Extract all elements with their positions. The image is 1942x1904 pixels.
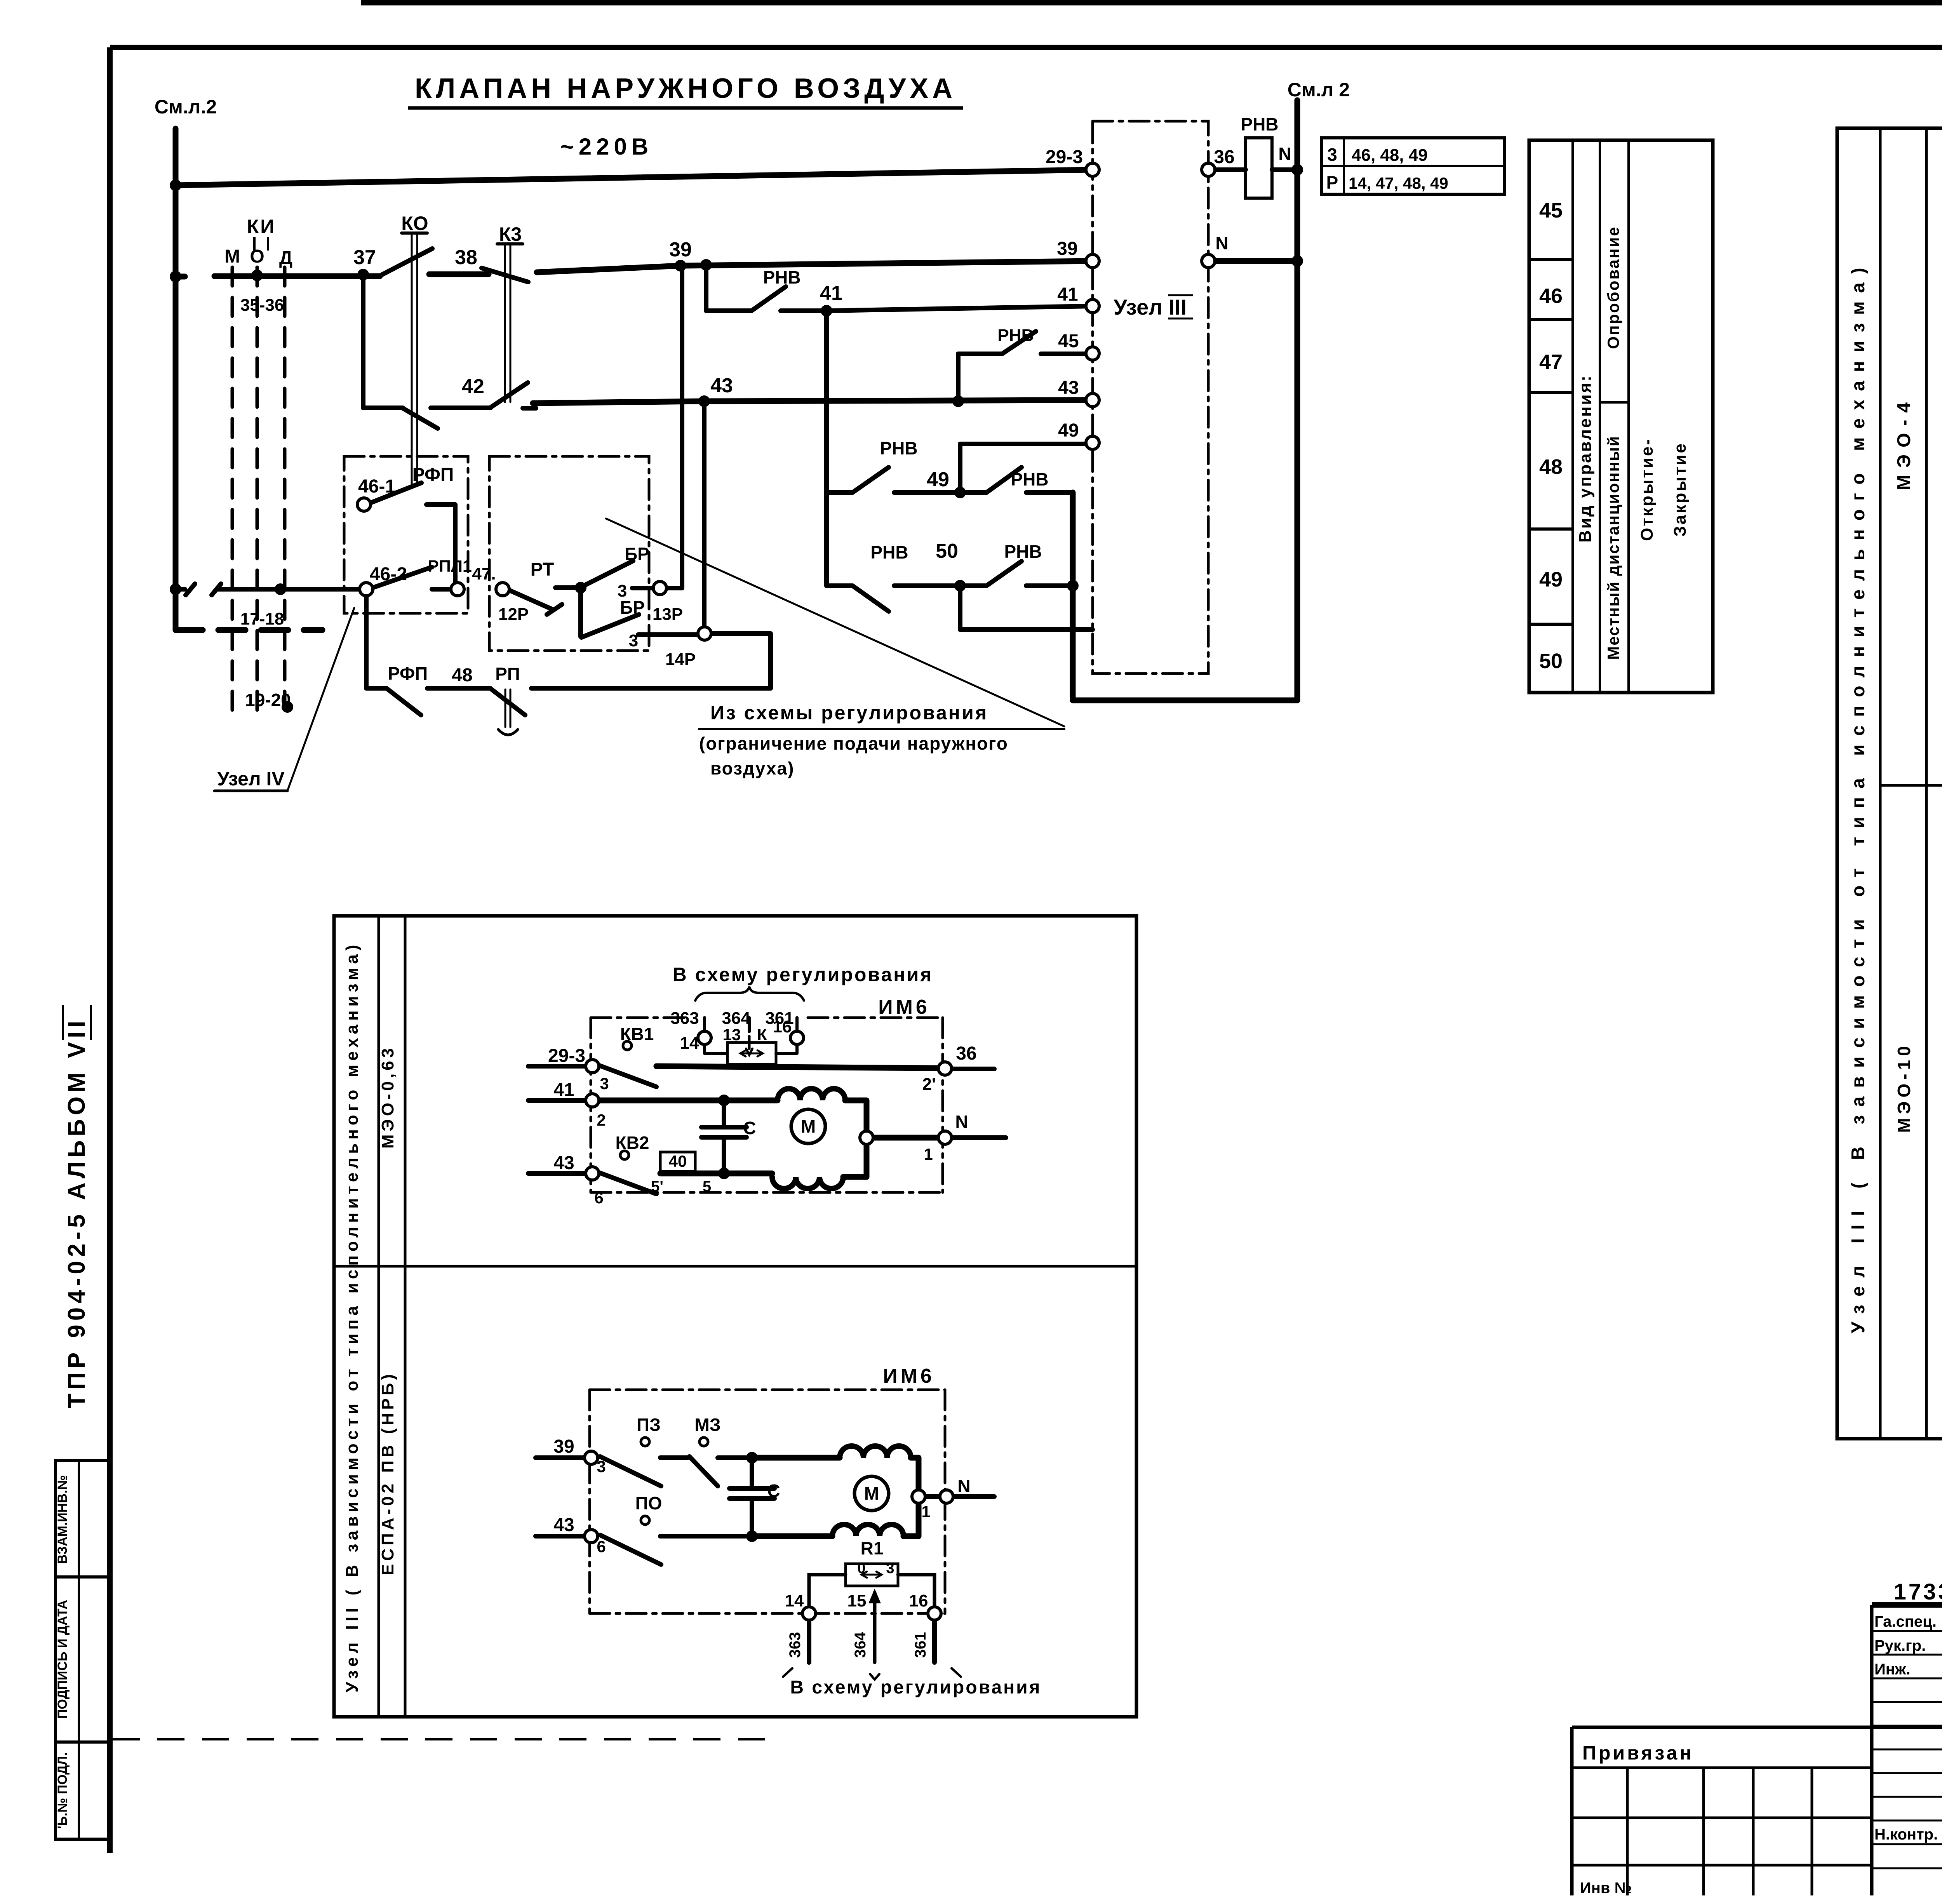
svg-text:43: 43 bbox=[553, 1515, 574, 1535]
svg-text:363: 363 bbox=[787, 1632, 804, 1658]
svg-text:М: М bbox=[224, 246, 240, 267]
svg-text:РНВ: РНВ bbox=[1241, 114, 1278, 134]
svg-text:Инв №: Инв № bbox=[1580, 1880, 1632, 1897]
svg-text:41: 41 bbox=[1057, 284, 1078, 305]
svg-text:43: 43 bbox=[710, 374, 733, 397]
svg-text:36: 36 bbox=[956, 1043, 976, 1064]
svg-text:49: 49 bbox=[1539, 568, 1563, 591]
svg-text:ПОДПИСЬ И ДАТА: ПОДПИСЬ И ДАТА bbox=[55, 1600, 70, 1719]
svg-text:О: О bbox=[250, 246, 264, 267]
svg-text:РНВ: РНВ bbox=[1004, 541, 1042, 562]
svg-text:В схему регулирования: В схему регулирования bbox=[790, 1677, 1041, 1698]
svg-text:1: 1 bbox=[921, 1502, 930, 1521]
svg-text:364: 364 bbox=[852, 1632, 869, 1658]
svg-text:РНВ: РНВ bbox=[880, 438, 917, 458]
svg-text:39: 39 bbox=[669, 238, 692, 261]
svg-text:Узел IV: Узел IV bbox=[217, 768, 285, 790]
svg-text:ИМ6: ИМ6 bbox=[883, 1365, 935, 1387]
svg-text:361: 361 bbox=[912, 1632, 929, 1658]
svg-text:12Р: 12Р bbox=[498, 605, 529, 624]
svg-text:48: 48 bbox=[1539, 455, 1563, 479]
svg-text:16: 16 bbox=[909, 1591, 928, 1610]
svg-text:Закрытие: Закрытие bbox=[1671, 442, 1690, 537]
svg-text:МЭО-0,63: МЭО-0,63 bbox=[378, 1045, 397, 1149]
svg-text:ЕСПА-02 ПВ (НРБ): ЕСПА-02 ПВ (НРБ) bbox=[378, 1371, 397, 1575]
svg-text:ПЗ: ПЗ bbox=[637, 1415, 661, 1435]
svg-text:БР: БР bbox=[625, 544, 649, 564]
svg-text:К3: К3 bbox=[499, 223, 522, 245]
svg-text:N: N bbox=[1215, 233, 1228, 253]
svg-text:43: 43 bbox=[1058, 378, 1079, 398]
svg-text:43: 43 bbox=[553, 1153, 574, 1173]
svg-text:КИ: КИ bbox=[247, 216, 276, 237]
svg-text:6: 6 bbox=[597, 1537, 606, 1556]
svg-text:М: М bbox=[864, 1483, 879, 1504]
svg-text:47: 47 bbox=[1539, 350, 1563, 374]
svg-text:Вид управления:: Вид управления: bbox=[1576, 374, 1595, 543]
svg-text:Н.контр.: Н.контр. bbox=[1874, 1826, 1938, 1843]
svg-text:МЭО-4: МЭО-4 bbox=[1894, 395, 1914, 490]
svg-text:3: 3 bbox=[600, 1074, 609, 1093]
svg-text:РПЛ1: РПЛ1 bbox=[428, 557, 472, 576]
svg-text:М: М bbox=[801, 1116, 816, 1136]
svg-text:КВ1: КВ1 bbox=[620, 1024, 654, 1044]
svg-text:46: 46 bbox=[1539, 284, 1563, 308]
svg-text:29-3: 29-3 bbox=[548, 1046, 585, 1066]
svg-text:См.л.2: См.л.2 bbox=[155, 96, 217, 118]
svg-text:37: 37 bbox=[353, 246, 376, 269]
svg-text:364: 364 bbox=[722, 1009, 750, 1028]
svg-text:13: 13 bbox=[723, 1025, 741, 1044]
svg-text:46, 48, 49: 46, 48, 49 bbox=[1352, 146, 1428, 165]
svg-text:РП: РП bbox=[495, 664, 520, 684]
svg-text:17-18: 17-18 bbox=[240, 609, 284, 628]
svg-text:N: N bbox=[1278, 144, 1291, 164]
svg-text:~220В: ~220В bbox=[560, 134, 653, 160]
svg-text:47.: 47. bbox=[472, 564, 496, 583]
svg-text:2: 2 bbox=[597, 1111, 606, 1129]
svg-text:Рук.гр.: Рук.гр. bbox=[1874, 1637, 1926, 1654]
svg-text:С: С bbox=[767, 1481, 780, 1501]
svg-text:46-2: 46-2 bbox=[370, 564, 407, 585]
svg-text:5: 5 bbox=[703, 1178, 711, 1195]
svg-text:14: 14 bbox=[785, 1591, 804, 1610]
svg-text:6: 6 bbox=[594, 1189, 603, 1207]
svg-text:ТПР 904-02-5 АЛЬБОМ VII: ТПР 904-02-5 АЛЬБОМ VII bbox=[63, 1017, 90, 1408]
svg-text:29-3: 29-3 bbox=[1046, 147, 1083, 167]
svg-text:Р: Р bbox=[1326, 172, 1338, 193]
svg-text:46-1: 46-1 bbox=[358, 476, 395, 497]
svg-text:Инж.: Инж. bbox=[1874, 1661, 1910, 1678]
svg-text:БР: БР bbox=[620, 597, 645, 618]
svg-text:19-20: 19-20 bbox=[245, 690, 291, 710]
svg-text:Из схемы регулирования: Из схемы регулирования bbox=[710, 702, 988, 724]
svg-text:ИМ6: ИМ6 bbox=[878, 996, 930, 1018]
svg-text:РФП: РФП bbox=[388, 663, 428, 684]
svg-text:Местный дистанционный: Местный дистанционный bbox=[1604, 435, 1622, 660]
svg-text:41: 41 bbox=[820, 282, 842, 305]
svg-text:42: 42 bbox=[462, 375, 484, 398]
svg-text:39: 39 bbox=[1057, 238, 1077, 259]
svg-text:49: 49 bbox=[1058, 420, 1079, 441]
svg-text:38: 38 bbox=[455, 246, 477, 269]
svg-text:14Р: 14Р bbox=[665, 650, 696, 669]
svg-text:Опробование: Опробование bbox=[1604, 226, 1622, 349]
svg-text:ПО: ПО bbox=[635, 1493, 662, 1513]
svg-text:49: 49 bbox=[927, 468, 949, 491]
svg-text:41: 41 bbox=[553, 1080, 574, 1100]
svg-text:КО: КО bbox=[401, 212, 428, 234]
svg-text:РТ: РТ bbox=[531, 559, 554, 580]
svg-text:48: 48 bbox=[452, 665, 472, 686]
svg-text:Д: Д bbox=[279, 248, 292, 268]
svg-text:РНВ: РНВ bbox=[870, 542, 908, 562]
svg-text:1: 1 bbox=[924, 1145, 933, 1163]
svg-text:0: 0 bbox=[857, 1560, 865, 1577]
svg-text:МЭО-10: МЭО-10 bbox=[1894, 1042, 1914, 1133]
svg-text:Открытие-: Открытие- bbox=[1637, 438, 1657, 541]
svg-text:РНВ: РНВ bbox=[763, 267, 800, 287]
svg-text:3: 3 bbox=[597, 1457, 606, 1476]
svg-text:3: 3 bbox=[1327, 144, 1337, 165]
svg-text:РФП: РФП bbox=[412, 465, 454, 485]
svg-text:КЛАПАН НАРУЖНОГО ВОЗДУХА: КЛАПАН НАРУЖНОГО ВОЗДУХА bbox=[415, 73, 956, 104]
svg-text:РНВ: РНВ bbox=[998, 326, 1034, 345]
svg-text:'Ь.№ ПОДЛ.: 'Ь.№ ПОДЛ. bbox=[55, 1752, 70, 1829]
svg-text:17333-08: 17333-08 bbox=[1893, 1579, 1942, 1605]
svg-text:35-36: 35-36 bbox=[240, 296, 284, 315]
svg-text:N: N bbox=[957, 1476, 970, 1496]
svg-text:40: 40 bbox=[669, 1152, 687, 1170]
svg-text:50: 50 bbox=[936, 540, 958, 562]
svg-text:50: 50 bbox=[1539, 649, 1563, 673]
svg-text:13Р: 13Р bbox=[653, 605, 683, 624]
svg-text:3: 3 bbox=[629, 631, 638, 650]
svg-text:R1: R1 bbox=[861, 1538, 884, 1558]
svg-text:воздуха): воздуха) bbox=[710, 758, 794, 778]
svg-text:39: 39 bbox=[553, 1436, 574, 1457]
svg-text:45: 45 bbox=[1539, 199, 1563, 222]
svg-text:Узел III: Узел III bbox=[1114, 295, 1187, 319]
svg-text:Привязан: Привязан bbox=[1582, 1742, 1694, 1764]
svg-text:МЗ: МЗ bbox=[694, 1415, 720, 1435]
svg-text:Га.спец.: Га.спец. bbox=[1874, 1613, 1937, 1630]
svg-text:36: 36 bbox=[1214, 147, 1234, 167]
svg-text:С: С bbox=[743, 1118, 756, 1138]
svg-text:К: К bbox=[757, 1025, 767, 1044]
svg-text:N: N bbox=[955, 1112, 968, 1132]
svg-text:В схему регулирования: В схему регулирования bbox=[673, 964, 933, 985]
svg-text:15: 15 bbox=[847, 1591, 867, 1610]
svg-text:ВЗАМ.ИНВ.№: ВЗАМ.ИНВ.№ bbox=[55, 1475, 70, 1564]
svg-text:5': 5' bbox=[651, 1178, 663, 1195]
svg-text:Узел III ( В зависимости от ти: Узел III ( В зависимости от типа исполни… bbox=[343, 941, 362, 1693]
svg-text:Узел III ( В зависимости от ти: Узел III ( В зависимости от типа исполни… bbox=[1848, 259, 1869, 1333]
svg-text:2': 2' bbox=[922, 1075, 936, 1094]
svg-text:16: 16 bbox=[773, 1017, 792, 1036]
svg-text:14: 14 bbox=[680, 1034, 699, 1053]
svg-text:(ограничение подачи наружного: (ограничение подачи наружного bbox=[699, 733, 1008, 754]
svg-text:363: 363 bbox=[670, 1009, 699, 1028]
svg-text:14, 47, 48, 49: 14, 47, 48, 49 bbox=[1349, 174, 1448, 192]
svg-text:3: 3 bbox=[886, 1560, 894, 1577]
svg-text:РНВ: РНВ bbox=[1011, 469, 1048, 489]
svg-text:КВ2: КВ2 bbox=[616, 1133, 649, 1153]
svg-text:45: 45 bbox=[1058, 331, 1079, 352]
